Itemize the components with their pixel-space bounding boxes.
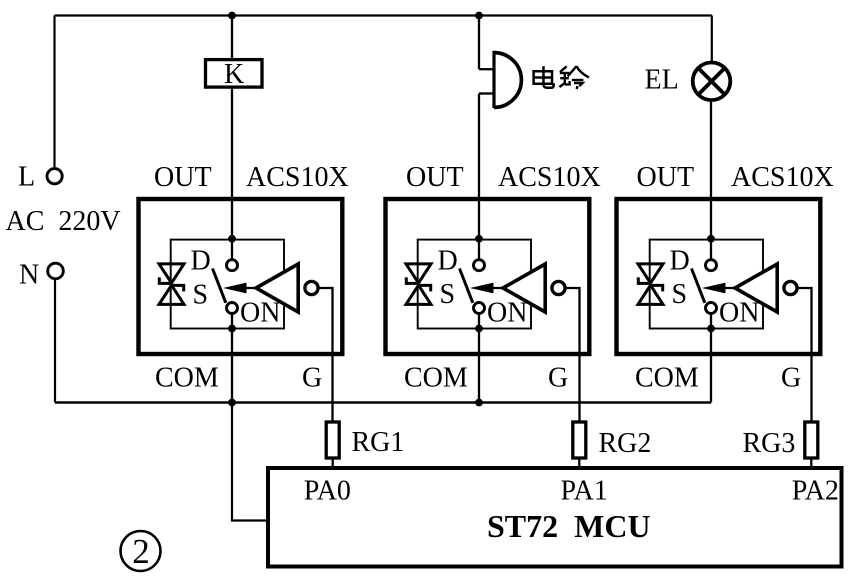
node U2 COM junction xyxy=(475,325,483,333)
bell HA dome xyxy=(494,53,521,108)
svg-text:EL: EL xyxy=(645,65,679,96)
node junction bus U2 COM xyxy=(475,399,483,407)
switch U3 blade xyxy=(692,269,705,303)
bell terminal stub bottom xyxy=(479,92,494,94)
wire U3 S to COM bus xyxy=(710,313,712,402)
driver U1 buffer triangle xyxy=(256,264,298,312)
relay coil K xyxy=(206,60,263,88)
svg-text:ACS10X: ACS10X xyxy=(246,162,349,193)
lamp EL cross stroke 1 xyxy=(698,68,725,95)
wire U2 S to COM bus xyxy=(478,313,480,402)
wire top line to bell xyxy=(478,16,480,70)
switch U3 contact D xyxy=(706,260,717,271)
svg-text:PA0: PA0 xyxy=(304,476,351,507)
wire U3 arrow shaft xyxy=(723,287,736,289)
svg-text:PA1: PA1 xyxy=(561,476,608,507)
terminal N xyxy=(48,263,64,279)
svg-text:COM: COM xyxy=(404,363,468,394)
wire U2 G pin xyxy=(565,288,579,422)
triac U1 right gate bar xyxy=(170,284,185,291)
driver U3 inverting bubble xyxy=(784,281,797,294)
svg-text:RG1: RG1 xyxy=(352,427,405,458)
wire COM bus to MCU xyxy=(232,403,268,521)
ACS10X U3 package outline xyxy=(617,199,821,354)
resistor RG3 xyxy=(805,422,818,458)
svg-text:S: S xyxy=(672,279,688,310)
svg-text:ON: ON xyxy=(719,298,759,329)
terminal L xyxy=(47,169,62,184)
svg-text:G: G xyxy=(781,363,801,394)
switch U1 contact S xyxy=(227,303,238,314)
svg-text:COM: COM xyxy=(155,363,219,394)
switch U3 contact S xyxy=(706,303,717,314)
svg-text:PA2: PA2 xyxy=(792,476,839,507)
svg-text:G: G xyxy=(302,363,322,394)
svg-text:ACS10X: ACS10X xyxy=(498,162,601,193)
svg-text:ST72 MCU: ST72 MCU xyxy=(487,508,651,544)
resistor RG2 xyxy=(573,422,586,458)
wire U1 arrow shaft xyxy=(244,287,257,289)
figure number circle 2 xyxy=(121,531,161,571)
switch U2 blade xyxy=(460,269,473,303)
wire U1 S to COM bus xyxy=(231,313,233,402)
svg-text:OUT: OUT xyxy=(406,162,464,193)
svg-text:ACS10X: ACS10X xyxy=(731,162,834,193)
svg-text:ON: ON xyxy=(487,298,527,329)
ACS10X U2 package outline xyxy=(386,199,590,354)
wire RG2 to PA1 xyxy=(578,458,580,468)
triac U2 right gate bar xyxy=(417,284,432,291)
svg-text:K: K xyxy=(224,59,244,90)
svg-text:2: 2 xyxy=(132,532,150,571)
node junction bus U1 COM xyxy=(228,399,236,407)
driver U2 inverting bubble xyxy=(552,281,565,294)
wire left drop to L terminal xyxy=(53,16,55,169)
wire top supply line L xyxy=(55,14,712,16)
svg-text:RG3: RG3 xyxy=(743,428,796,459)
triac U1 lower triangle xyxy=(159,285,184,304)
bell terminal stub top xyxy=(479,68,494,70)
switch U2 contact D xyxy=(474,260,485,271)
arrow U3 gate drive xyxy=(702,283,726,294)
resistor RG1 xyxy=(326,422,339,458)
triac U3 lower triangle xyxy=(638,285,663,304)
triac U3 upper triangle xyxy=(638,264,663,283)
triac U2 lower triangle xyxy=(406,285,431,304)
svg-text:OUT: OUT xyxy=(154,162,212,193)
svg-text:OUT: OUT xyxy=(637,162,695,193)
U2 inner cell outline xyxy=(418,240,531,329)
svg-text:COM: COM xyxy=(635,363,699,394)
node U3 COM junction xyxy=(707,325,715,333)
arrow U2 gate drive xyxy=(470,283,494,294)
switch U1 blade xyxy=(213,269,226,303)
triac U2 left gate bar xyxy=(405,277,420,284)
svg-text:N: N xyxy=(19,260,39,291)
triac U3 left gate bar xyxy=(637,277,652,284)
svg-text:D: D xyxy=(191,246,211,277)
lamp EL cross stroke 2 xyxy=(698,68,725,95)
svg-text:AC 220V: AC 220V xyxy=(6,206,121,237)
triac U3 right gate bar xyxy=(649,284,664,291)
svg-text:S: S xyxy=(193,280,209,311)
U3 inner cell outline xyxy=(650,240,763,329)
lamp EL body xyxy=(693,63,731,101)
U1 inner cell outline xyxy=(171,240,284,329)
node U1 D junction xyxy=(228,235,236,243)
ACS10X U1 package outline xyxy=(139,199,343,354)
svg-text:D: D xyxy=(670,246,690,277)
svg-text:ON: ON xyxy=(240,298,280,329)
switch U2 contact S xyxy=(474,303,485,314)
arrow U1 gate drive xyxy=(223,283,247,294)
node junction top line to bell xyxy=(475,12,483,20)
node U2 D junction xyxy=(475,235,483,243)
wire U2 arrow shaft xyxy=(491,287,504,289)
triac U1 left gate bar xyxy=(158,277,173,284)
wire lamp EL to U3 OUT xyxy=(710,100,712,259)
svg-text:L: L xyxy=(18,162,35,193)
node U3 D junction xyxy=(707,235,715,243)
wire bell to U2 OUT xyxy=(478,94,480,260)
wire U1 G pin xyxy=(318,288,332,422)
svg-text:RG2: RG2 xyxy=(599,428,652,459)
driver U3 buffer triangle xyxy=(735,264,777,312)
svg-text:D: D xyxy=(438,246,458,277)
wire relay K to U1 OUT xyxy=(231,87,233,260)
MCU U4 ST72 outline xyxy=(268,468,842,567)
driver U1 inverting bubble xyxy=(305,281,318,294)
svg-text:S: S xyxy=(440,279,456,310)
wire N terminal to COM bus xyxy=(54,279,56,403)
switch U1 contact D xyxy=(227,260,238,271)
triac U1 upper triangle xyxy=(159,264,184,283)
driver U2 buffer triangle xyxy=(503,264,545,312)
svg-text:G: G xyxy=(548,363,568,394)
node junction top line to K xyxy=(228,12,236,20)
wire U3 G pin xyxy=(797,288,811,422)
bell HA flat edge xyxy=(492,51,495,108)
bell label ling (Chinese glyph drawn as strokes) xyxy=(559,66,589,89)
wire COM bus xyxy=(55,401,711,403)
wire RG1 to PA0 xyxy=(332,458,334,468)
wire top line to relay K xyxy=(231,16,233,60)
wire top line corner drop to lamp EL xyxy=(711,16,713,63)
bell label dian (Chinese glyph drawn as strokes) xyxy=(534,66,554,88)
node U1 COM junction xyxy=(228,325,236,333)
triac U2 upper triangle xyxy=(406,264,431,283)
wire RG3 to PA2 xyxy=(810,458,812,468)
